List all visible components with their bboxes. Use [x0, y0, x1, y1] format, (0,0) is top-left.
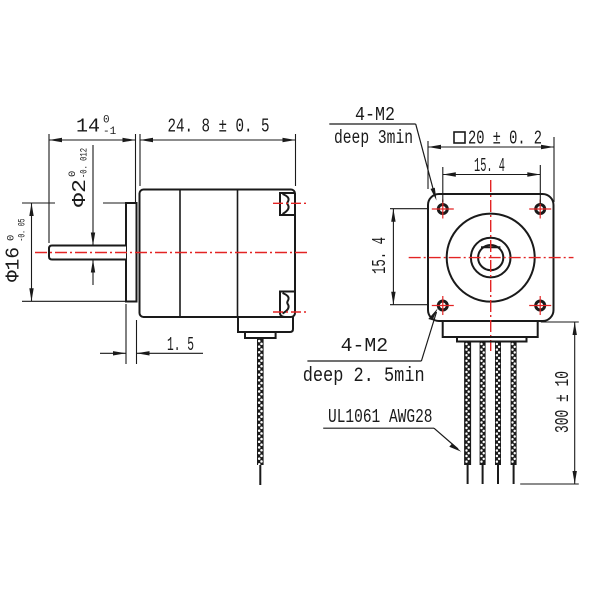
connector step 2 (front view): [457, 337, 527, 342]
shaft (side view): [49, 246, 126, 260]
mounting hole top-right: [529, 200, 551, 219]
dimension 24.8: dimension line: [140, 139, 296, 141]
svg-text:20 ± 0. 2: 20 ± 0. 2: [468, 128, 542, 150]
dimension 15.4 top: right arrow: [527, 172, 540, 176]
bottom notch rectangle (side view rear): [280, 292, 295, 318]
dimension square20: square symbol: [454, 132, 465, 143]
dimension 15.4 left: extension line bottom: [390, 304, 428, 306]
svg-text:-0. 05: -0. 05: [17, 219, 29, 242]
dimension 14: right arrow: [123, 138, 136, 142]
dimension 15.4 left: dimension line: [392, 209, 394, 305]
svg-text:-1: -1: [103, 126, 117, 138]
shaft flat chord: [481, 246, 500, 248]
dimension phi2: upper arrow: [91, 233, 95, 246]
connector step 1 (side view): [238, 317, 293, 332]
dimension square20: left arrow: [428, 145, 441, 149]
dimension 14: extension line right: [135, 134, 137, 202]
lead wire 2 tail: [482, 465, 484, 484]
connector step 2 (side view): [245, 332, 276, 338]
dimension 15.4 left: top arrow: [391, 209, 395, 222]
dimension phi2: lower arrow: [91, 260, 95, 273]
dimension square20: extension line left: [427, 141, 429, 189]
dimension 15.4 top: dimension line: [443, 174, 541, 176]
mounting hole bottom-right: [529, 296, 551, 315]
top notch rectangle (side view rear): [280, 193, 295, 215]
svg-text:15. 4: 15. 4: [474, 155, 505, 177]
body circle: [447, 214, 535, 302]
shaft circle: [478, 245, 503, 270]
svg-text:14: 14: [76, 116, 100, 138]
label 4-M2 deep 2.5min: underline: [307, 360, 421, 362]
svg-text:deep 2. 5min: deep 2. 5min: [303, 365, 425, 388]
dimension phi16: top arrow: [29, 203, 33, 216]
dimension 15.4 left: extension line top: [390, 208, 428, 210]
top notch red centerline: [273, 202, 308, 204]
dimension 15.4 left: bottom arrow: [391, 292, 395, 305]
svg-text:4-M2: 4-M2: [355, 104, 395, 126]
body section line 2: [237, 190, 239, 318]
label UL1061 AWG28: leader line: [434, 428, 458, 449]
dimension 1.5: right dimension line: [137, 352, 204, 354]
svg-text:15. 4: 15. 4: [369, 237, 391, 274]
svg-text:-0. 012: -0. 012: [79, 148, 91, 178]
bottom notch red centerline: [273, 311, 308, 313]
dimension 300: top arrow: [573, 322, 577, 335]
label 4-M2 deep 2.5min: leader line: [421, 312, 436, 361]
dimension 15.4 top: extension line left: [442, 167, 444, 203]
front view horizontal red centerline: [409, 257, 574, 259]
dimension 300: text: [552, 371, 574, 433]
dimension 300: extension line bottom: [520, 483, 579, 485]
dimension 1.5: extension line left: [125, 304, 127, 364]
pilot boss circle: [471, 238, 511, 278]
dimension phi2: lower dimension line: [92, 261, 94, 286]
svg-text:Φ16: Φ16: [3, 247, 25, 282]
lead wire 4 (front view): [511, 342, 517, 466]
connector step 1 (front view): [443, 321, 538, 337]
front boss (side view): [126, 203, 137, 302]
dimension phi16: extension line bottom: [22, 300, 133, 302]
dimension 15.4 left: text: [369, 237, 391, 274]
svg-text:UL1061 AWG28: UL1061 AWG28: [328, 406, 433, 428]
dimension phi16: text: [3, 219, 29, 283]
bottom notch curve: [283, 293, 289, 314]
svg-text:0: 0: [103, 115, 110, 127]
label 4-M2 deep 3min: underline: [329, 123, 415, 125]
lead wire 3 tail: [497, 465, 499, 484]
dimension phi16: bottom arrow: [29, 288, 33, 301]
body section line 1: [179, 190, 181, 318]
dimension 15.4 top: left arrow: [443, 172, 456, 176]
dimension 1.5: extension line right: [136, 320, 138, 364]
dimension 1.5: left arrow: [113, 351, 126, 355]
lead wire 1 (front view): [464, 342, 471, 466]
dimension 14: dimension line: [49, 139, 136, 141]
motor body (side view): [140, 190, 296, 318]
svg-text:deep 3min: deep 3min: [334, 127, 413, 149]
dimension 300: extension line top: [541, 321, 579, 323]
label 4-M2 deep 2.5min: leader arrow: [428, 308, 438, 320]
mounting hole bottom-left: [432, 296, 454, 315]
svg-text:4-M2: 4-M2: [341, 335, 389, 357]
dimension 1.5: right arrow: [137, 351, 150, 355]
svg-text:0: 0: [67, 171, 79, 177]
mounting hole top-left: [432, 200, 454, 219]
label UL1061 AWG28: underline: [323, 427, 434, 429]
dimension phi2: text: [67, 148, 91, 207]
dimension 24.8: right arrow: [283, 138, 296, 142]
braided wire (side view): [257, 338, 264, 465]
dimension square20: right arrow: [541, 145, 554, 149]
label 4-M2 deep 3min: leader arrow: [431, 188, 437, 201]
dimension 24.8: left arrow: [140, 138, 153, 142]
dimension phi2: upper dimension line: [92, 145, 94, 245]
svg-text:Φ2: Φ2: [69, 179, 91, 207]
lead wire 1 tail: [467, 465, 469, 484]
wire tail (side view): [259, 465, 261, 485]
svg-text:24. 8 ± 0. 5: 24. 8 ± 0. 5: [168, 116, 270, 138]
svg-text:1. 5: 1. 5: [167, 334, 194, 356]
dimension 24.8: extension line right: [295, 134, 297, 186]
dimension phi16: dimension line: [31, 203, 33, 301]
label 4-M2 deep 3min: leader line: [416, 124, 435, 196]
dimension square20: extension line right: [553, 137, 555, 202]
front view vertical red centerline: [490, 180, 492, 351]
dimension phi16: extension line top: [22, 202, 126, 204]
top notch curve: [283, 194, 289, 214]
svg-text:300 ± 10: 300 ± 10: [552, 371, 574, 433]
dimension 1.5: left dimension line: [100, 352, 126, 354]
front face square: [428, 194, 554, 321]
dimension 300: bottom arrow: [573, 471, 577, 484]
dimension 14: left arrow: [49, 138, 62, 142]
side view red centerline: [35, 252, 309, 254]
lead wire 4 tail: [513, 465, 515, 484]
dimension 24.8: extension line left: [139, 134, 141, 186]
dimension square20: dimension line: [428, 146, 554, 148]
lead wire 2 (front view): [480, 342, 486, 466]
lead wire 3 (front view): [495, 342, 501, 466]
dimension 15.4 top: extension line right: [539, 165, 541, 204]
dimension 14: extension line left: [48, 134, 50, 243]
dimension 300: dimension line: [574, 322, 576, 484]
label UL1061 AWG28: leader arrow: [449, 443, 461, 451]
